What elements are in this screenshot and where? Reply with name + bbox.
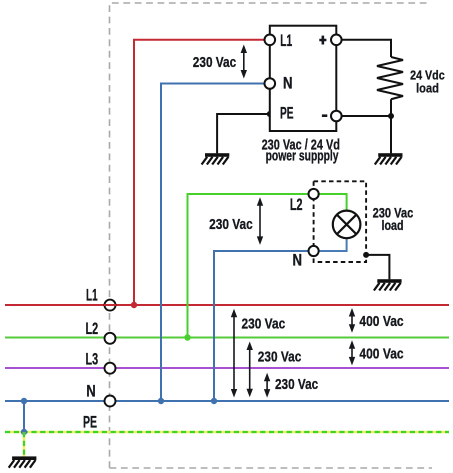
terminal: power supply + output [331,35,342,46]
terminal: bus L2 tap [105,333,116,344]
svg-text:PE: PE [83,413,97,431]
ground: power supply earth symbol [202,153,230,164]
svg-text:load: load [416,81,439,96]
lamp load dashed box [314,181,367,262]
svg-text:230 Vac: 230 Vac [275,376,318,393]
wire: PE drop to ground (green/yellow) [23,432,26,457]
node: junction dot on N bus at x214 [211,398,217,404]
measurement arrow: 230 Vac at lamp input [257,197,263,245]
svg-text:400 Vac: 400 Vac [359,345,403,362]
resistor: 24 Vdc load [377,57,403,99]
svg-text:load: load [382,218,404,233]
measurement arrow: 230 Vac L2-N [247,342,253,398]
terminal: bus L1 tap [104,300,116,311]
node: junction dot on PE [21,429,27,435]
wire: resistor bottom to - output [342,99,391,153]
wire: N bus (blue) [5,400,449,402]
svg-text:L1: L1 [86,286,98,304]
wire: + output to 24Vdc load [342,40,391,57]
wire: blue feeder from N bus to lamp N terminal [214,251,308,401]
svg-text:power suppply: power suppply [266,148,339,164]
svg-text:L3: L3 [86,351,99,369]
terminal: bus N tap [105,396,116,407]
measurement arrow: 230 Vac at power supply input [241,45,247,79]
svg-text:N: N [293,251,303,269]
node: junction dot on L2 bus [184,334,190,340]
wire: green feeder from L2 bus to lamp L2 terminal [188,194,309,338]
label: + pin [319,36,326,45]
wire: lamp internal L2 wire (green) [319,194,347,211]
wire: dashed enclosure boundary [110,3,433,468]
svg-text:230 Vac: 230 Vac [209,216,253,233]
svg-text:N: N [283,74,293,92]
label: - pin [322,114,327,117]
node: junction dot below resistor [388,113,394,119]
wire: red feeder from L1 bus to power supply L1 terminal [134,40,264,305]
terminal: power supply N [265,78,276,89]
ground: PE earth symbol bottom-left [9,456,37,467]
wire: lamp internal N wire (blue) [319,238,347,251]
wire: L3 bus (purple) [5,367,449,369]
measurement arrow: 230 Vac L1-N [231,309,237,398]
measurement arrow: 400 Vac L1-L2 [349,308,355,333]
node: PE terminal dot on power supply [267,111,273,117]
svg-text:L1: L1 [280,32,292,50]
svg-text:230 Vac: 230 Vac [193,54,236,71]
node: junction dot on L1 bus [131,302,137,308]
terminal: lamp L2 [309,189,319,199]
wire: PE bus (green/yellow) [5,431,449,434]
node: junction dot N drop [21,398,27,404]
wire: N bus to PE drop (blue) [23,401,25,432]
terminal: power supply - output [331,111,342,122]
svg-text:400 Vac: 400 Vac [359,313,403,330]
svg-text:230 Vac: 230 Vac [242,316,286,333]
measurement arrow: 230 Vac L3-N [264,373,270,398]
lamp: 230 Vac load [333,211,361,239]
svg-text:L2: L2 [86,320,99,338]
measurement arrow: 400 Vac L2-L3 [349,340,355,365]
wire: blue feeder from N bus to power supply N terminal [161,84,264,402]
terminal: power supply L1 [265,35,276,46]
terminal: lamp N [309,246,319,256]
svg-text:N: N [86,383,96,401]
wire: lamp chassis to ground [366,255,389,280]
power supply U1 box [270,26,337,131]
svg-text:L2: L2 [290,196,303,214]
terminal: bus L3 tap [105,363,116,374]
ground: 24Vdc load earth symbol [375,153,403,164]
node: junction dot on N bus at x161 [158,398,164,404]
wire: power supply PE to ground [217,114,270,153]
svg-text:PE: PE [280,105,294,123]
wire: L1 bus (red) [5,304,449,306]
node: lamp chassis dot [363,252,369,258]
ground: lamp earth symbol [374,279,402,290]
wire: L2 bus (green) [5,337,449,339]
svg-text:230 Vac: 230 Vac [258,349,302,366]
